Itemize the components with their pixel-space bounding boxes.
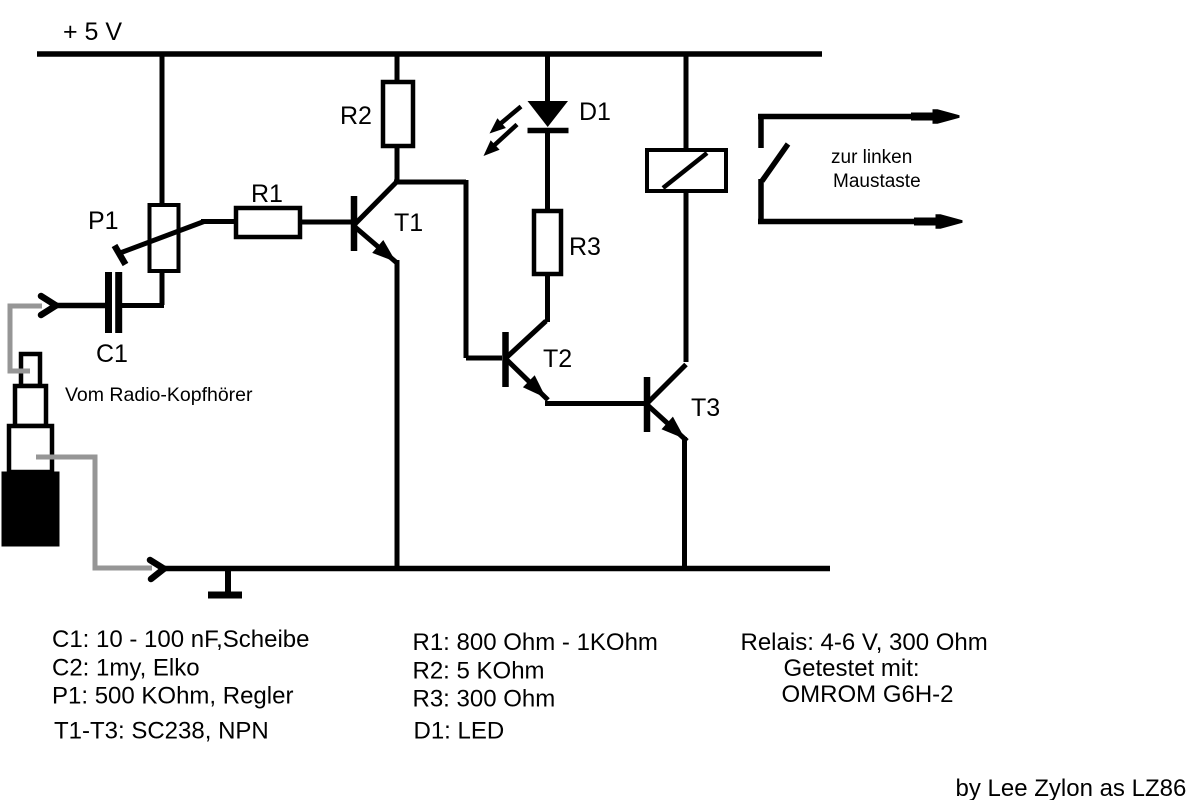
net label +5V bbox=[63, 18, 122, 46]
svg-text:P1: P1 bbox=[88, 207, 119, 235]
switch contact (relay output) bbox=[761, 114, 788, 223]
wire+arrow: top to left mouse button bbox=[758, 109, 960, 123]
resistor R2 bbox=[383, 82, 413, 146]
+5V supply rail bbox=[37, 51, 822, 57]
label P1 bbox=[88, 207, 119, 235]
label: zur linken Maustaste bbox=[831, 147, 921, 192]
ground symbol bbox=[208, 571, 242, 595]
audio jack plug body bbox=[2, 472, 59, 546]
svg-text:C1: 10 - 100 nF,Scheibe: C1: 10 - 100 nF,Scheibe bbox=[52, 626, 310, 653]
capacitor C1 bbox=[109, 272, 119, 333]
wire: D1 cathode to R3 bbox=[545, 130, 550, 213]
wire: T1 emitter to ground rail bbox=[395, 260, 400, 566]
wire: +5V rail to R2 bbox=[395, 52, 400, 84]
transistor T2 bbox=[506, 321, 549, 400]
wire: R1 to T1 base bbox=[300, 220, 351, 225]
label R1 bbox=[251, 180, 283, 208]
credit line bbox=[956, 775, 1187, 800]
label R3 bbox=[569, 233, 601, 261]
parts list column 1 bbox=[52, 626, 310, 745]
svg-text:R1: 800 Ohm - 1KOhm: R1: 800 Ohm - 1KOhm bbox=[413, 629, 658, 656]
ground rail bbox=[162, 566, 830, 572]
svg-text:R3: 300 Ohm: R3: 300 Ohm bbox=[413, 686, 556, 713]
svg-text:C1: C1 bbox=[96, 340, 128, 368]
svg-text:by Lee Zylon as LZ86: by Lee Zylon as LZ86 bbox=[956, 775, 1187, 800]
svg-text:D1: LED: D1: LED bbox=[414, 718, 505, 745]
label C1 bbox=[96, 340, 128, 368]
wire: +5V rail to D1 anode bbox=[545, 52, 550, 103]
wire: input arrow to C1 left plate bbox=[54, 303, 106, 309]
svg-text:R1: R1 bbox=[251, 180, 283, 208]
label T2 bbox=[543, 345, 572, 373]
svg-text:Vom Radio-Kopfhörer: Vom Radio-Kopfhörer bbox=[65, 384, 253, 406]
svg-text:P1: 500 KOhm, Regler: P1: 500 KOhm, Regler bbox=[52, 683, 293, 710]
wire: P1 bottom to C1 node bbox=[120, 269, 164, 306]
svg-text:Maustaste: Maustaste bbox=[833, 171, 921, 192]
wire: T3 emitter to ground rail bbox=[682, 437, 687, 566]
svg-text:zur linken: zur linken bbox=[831, 147, 912, 168]
svg-text:R2: R2 bbox=[340, 102, 372, 130]
wire: T3 collector to relay bbox=[684, 193, 689, 362]
svg-text:R2: 5 KOhm: R2: 5 KOhm bbox=[413, 658, 545, 685]
wire: R2 to T1 collector node bbox=[395, 144, 400, 184]
svg-text:T3: T3 bbox=[691, 394, 720, 422]
audio jack plug sleeve bbox=[9, 426, 52, 472]
potentiometer P1 bbox=[115, 205, 205, 271]
resistor R3 bbox=[534, 211, 561, 274]
relay coil K1 bbox=[647, 150, 726, 191]
label T3 bbox=[691, 394, 720, 422]
svg-text:T1-T3: SC238, NPN: T1-T3: SC238, NPN bbox=[54, 718, 269, 745]
svg-text:T2: T2 bbox=[543, 345, 572, 373]
wire: R3 to T2 collector bbox=[545, 272, 550, 322]
LED D1 light arrows bbox=[484, 107, 522, 157]
parts list column 3 (relay) bbox=[741, 629, 988, 708]
LED D1 bbox=[528, 101, 569, 131]
grey wire: jack sleeve to ground arrow bbox=[36, 457, 152, 568]
svg-text:Getestet mit:: Getestet mit: bbox=[784, 655, 920, 682]
audio jack plug ring bbox=[15, 386, 46, 426]
grey wire: jack tip to input arrow bbox=[10, 306, 42, 371]
svg-text:R3: R3 bbox=[569, 233, 601, 261]
svg-text:C2: 1my, Elko: C2: 1my, Elko bbox=[52, 655, 200, 682]
ground input arrow bbox=[150, 560, 164, 579]
label R2 bbox=[340, 102, 372, 130]
wire: +5V rail to relay coil bbox=[684, 52, 689, 152]
svg-text:+ 5 V: + 5 V bbox=[63, 18, 122, 46]
wire: P1 wiper to R1 bbox=[201, 219, 238, 224]
svg-text:Relais: 4-6 V, 300 Ohm: Relais: 4-6 V, 300 Ohm bbox=[741, 629, 988, 656]
svg-text:D1: D1 bbox=[579, 98, 611, 126]
label: Vom Radio-Kopfhoerer bbox=[65, 384, 253, 406]
transistor T3 bbox=[647, 365, 687, 442]
svg-text:T1: T1 bbox=[394, 209, 423, 237]
parts list column 2 bbox=[413, 629, 658, 745]
resistor R1 bbox=[236, 208, 300, 237]
svg-text:OMROM G6H-2: OMROM G6H-2 bbox=[782, 681, 954, 708]
label T1 bbox=[394, 209, 423, 237]
input arrow (signal in) bbox=[41, 296, 56, 315]
wire+arrow: bottom to left mouse button bbox=[758, 214, 963, 228]
transistor T1 bbox=[354, 183, 397, 264]
label D1 bbox=[579, 98, 611, 126]
audio jack plug tip bbox=[21, 354, 40, 386]
wire: T1 collector to T2 base bbox=[394, 180, 502, 358]
wire: T2 emitter to T3 base bbox=[545, 401, 644, 406]
wire: +5V rail to P1 top bbox=[160, 52, 165, 207]
